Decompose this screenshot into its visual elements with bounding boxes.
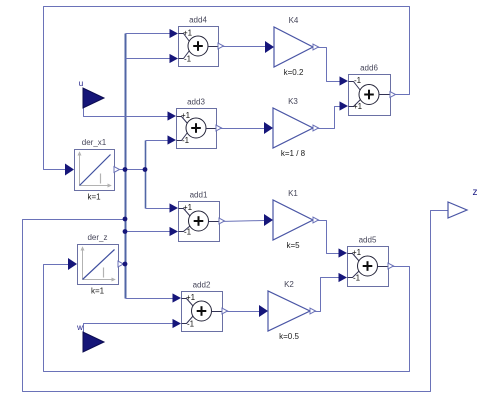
svg-text:k=0.2: k=0.2 <box>284 68 304 77</box>
svg-text:+1: +1 <box>181 111 191 120</box>
svg-text:K3: K3 <box>288 97 298 106</box>
svg-text:add6: add6 <box>360 64 378 73</box>
svg-text:k=1: k=1 <box>91 287 105 296</box>
svg-text:-1: -1 <box>354 76 362 85</box>
svg-text:K2: K2 <box>284 280 294 289</box>
svg-text:+1: +1 <box>353 102 363 111</box>
svg-text:add2: add2 <box>193 281 211 290</box>
svg-text:K4: K4 <box>289 16 299 25</box>
svg-text:k=5: k=5 <box>286 241 300 250</box>
svg-text:z: z <box>473 187 478 198</box>
svg-text:-1: -1 <box>184 55 192 64</box>
svg-text:+1: +1 <box>183 29 193 38</box>
svg-text:w: w <box>76 323 83 332</box>
svg-text:k=1: k=1 <box>87 193 101 202</box>
svg-text:-1: -1 <box>187 320 195 329</box>
svg-text:+1: +1 <box>352 248 362 257</box>
svg-text:add1: add1 <box>190 191 208 200</box>
svg-text:-1: -1 <box>353 274 361 283</box>
svg-text:der_x1: der_x1 <box>82 138 107 147</box>
svg-text:add3: add3 <box>187 98 205 107</box>
svg-text:-1: -1 <box>184 228 192 237</box>
svg-text:u: u <box>79 79 83 88</box>
svg-text:+1: +1 <box>186 293 196 302</box>
svg-text:K1: K1 <box>288 189 298 198</box>
svg-text:add4: add4 <box>189 16 207 25</box>
svg-text:k=1 / 8: k=1 / 8 <box>281 149 306 158</box>
svg-text:k=0.5: k=0.5 <box>279 332 299 341</box>
svg-text:der_z: der_z <box>87 233 107 242</box>
svg-text:-1: -1 <box>182 136 190 145</box>
svg-text:add5: add5 <box>359 236 377 245</box>
svg-text:+1: +1 <box>183 203 193 212</box>
